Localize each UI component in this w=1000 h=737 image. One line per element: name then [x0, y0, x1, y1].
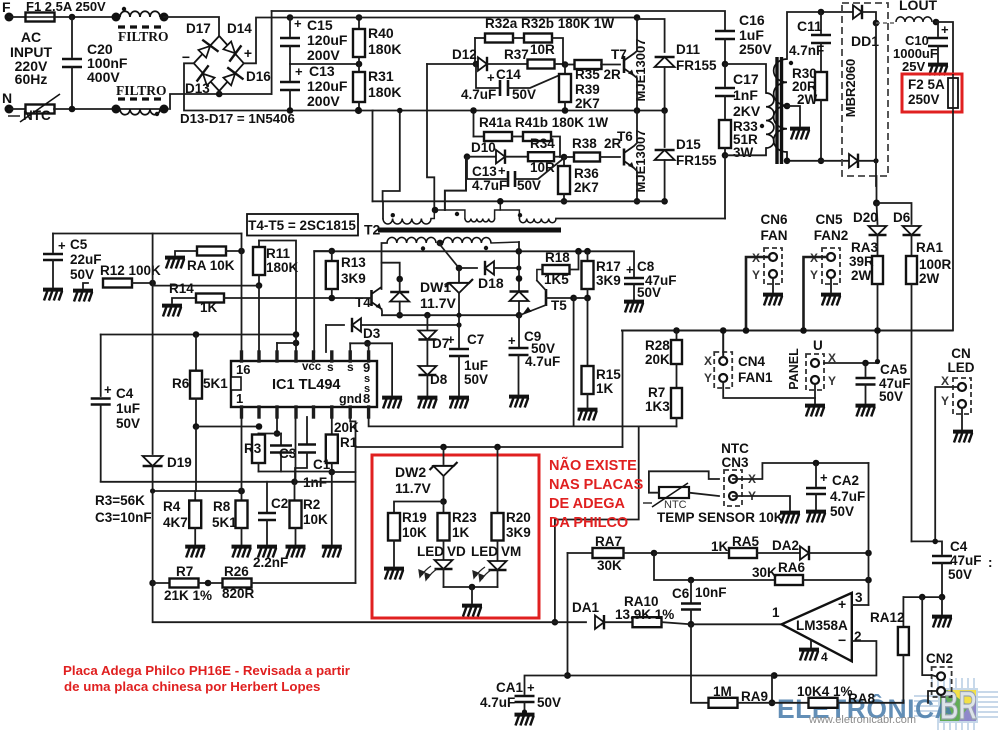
svg-text:RA1: RA1	[916, 240, 943, 255]
wire fan rail	[622, 330, 952, 332]
svg-text:13.9K 1%: 13.9K 1%	[615, 607, 674, 622]
diode D15 FR155	[664, 111, 666, 148]
resistor R33	[719, 120, 731, 148]
svg-text:50V: 50V	[948, 567, 972, 582]
svg-text:50V: 50V	[637, 285, 661, 300]
resistor R3	[276, 417, 278, 434]
svg-text:100R: 100R	[919, 257, 952, 272]
wire pin 20K R1 net	[350, 417, 355, 583]
svg-text:Y: Y	[828, 374, 836, 388]
wire CN2 Y	[928, 691, 936, 703]
svg-text:D17: D17	[186, 21, 211, 36]
transformer T2 core	[378, 228, 561, 233]
resistor R40	[358, 18, 360, 30]
svg-text:MBR2060: MBR2060	[843, 59, 858, 118]
svg-text:CN4: CN4	[738, 354, 765, 369]
capacitor C16	[715, 31, 735, 39]
svg-text:RA8: RA8	[848, 691, 875, 706]
zener DW1 11.7V	[456, 265, 463, 272]
capacitor C17	[724, 64, 726, 86]
resistor R14 1K	[162, 306, 182, 317]
svg-text:+: +	[626, 262, 634, 277]
svg-text:+: +	[508, 333, 516, 348]
svg-text:180K: 180K	[266, 260, 299, 275]
svg-text:2KV: 2KV	[733, 103, 761, 119]
svg-text:47uF: 47uF	[950, 553, 982, 568]
svg-text:50V: 50V	[517, 178, 541, 193]
wire secondary right to T5 column	[491, 242, 519, 243]
wire T5 column	[518, 242, 520, 315]
diode D19	[143, 456, 163, 466]
wire C4 top rail to R6	[101, 334, 296, 336]
svg-text:3: 3	[855, 590, 863, 605]
svg-text:+: +	[941, 22, 949, 37]
svg-text:1uF: 1uF	[464, 358, 488, 373]
ground CN LED Y	[961, 408, 963, 429]
wire dw2 r20 supply row	[356, 446, 623, 448]
svg-text:DD1: DD1	[851, 33, 879, 49]
LED VD	[435, 560, 453, 569]
svg-text:1M: 1M	[713, 684, 732, 699]
capacitor CA1 4.7uF	[525, 676, 568, 695]
wire C4 bottom row	[903, 596, 942, 598]
svg-text:1K: 1K	[200, 300, 218, 315]
wire R2 feed	[294, 482, 296, 501]
svg-text:D11: D11	[676, 42, 701, 57]
red box NAO EXISTE	[372, 455, 539, 618]
wire N to NTC	[9, 108, 26, 110]
op-amp pin3 wire	[852, 604, 869, 606]
svg-text:DA PHILCO: DA PHILCO	[549, 515, 628, 531]
svg-text:180K: 180K	[368, 41, 401, 57]
wire T7 collector	[634, 18, 637, 54]
resistor R26 820R	[208, 582, 223, 584]
ground C4	[941, 597, 943, 614]
svg-text:X: X	[704, 354, 712, 368]
zener DW2 11.7V	[443, 447, 445, 464]
resistor R38	[564, 156, 574, 158]
svg-text:50V: 50V	[70, 267, 94, 282]
wire T5 emitter diagonal	[520, 305, 546, 315]
resistor RA9 1M	[691, 624, 709, 703]
resistor RA3	[872, 256, 883, 284]
wire LED bottoms to ground	[444, 586, 498, 588]
wire RA junction vertical	[241, 234, 243, 353]
svg-text:C3: C3	[279, 446, 297, 461]
svg-text:4.7uF: 4.7uF	[480, 695, 515, 710]
svg-text:vcc: vcc	[302, 361, 322, 373]
svg-text:FAN: FAN	[761, 228, 788, 243]
resistor R23 1K	[443, 502, 445, 514]
svg-text:CN2: CN2	[926, 651, 953, 666]
resistor R1 20K	[331, 417, 333, 435]
svg-text:−: −	[838, 632, 846, 648]
svg-text:CA2: CA2	[832, 473, 859, 488]
svg-text:de uma placa chinesa por Herbe: de uma placa chinesa por Herbert Lopes	[64, 679, 320, 694]
svg-text:C14: C14	[496, 67, 521, 82]
node N input terminal	[5, 105, 14, 114]
svg-text:1K: 1K	[452, 525, 470, 540]
svg-text:D13: D13	[185, 81, 210, 96]
capacitor C9 4.7uF	[518, 315, 520, 347]
wire rail A to R41a feed	[473, 111, 475, 137]
red box around F2	[902, 74, 962, 112]
svg-text:50V: 50V	[537, 695, 561, 710]
svg-text:D20: D20	[853, 210, 878, 225]
svg-text:R38: R38	[572, 136, 597, 151]
capacitor C13 bulk	[289, 64, 291, 80]
svg-text:CA1: CA1	[496, 680, 523, 695]
svg-text:+: +	[295, 64, 303, 79]
svg-text:22uF: 22uF	[70, 252, 102, 267]
svg-text:MJE13007: MJE13007	[633, 130, 648, 193]
svg-text:LED: LED	[471, 544, 498, 559]
svg-text:10nF: 10nF	[695, 585, 727, 600]
rectifier DD1 MBR2060 dashed box	[842, 3, 888, 176]
svg-text:R7: R7	[176, 564, 193, 579]
svg-text:60Hz: 60Hz	[15, 71, 48, 87]
svg-text:4.7uF: 4.7uF	[461, 87, 496, 102]
wire DD1 internal	[875, 23, 877, 186]
svg-text:CA5: CA5	[880, 362, 907, 377]
wire T6 collector	[634, 111, 637, 147]
IC1 pins bottom	[240, 407, 243, 417]
svg-text:NÃO EXISTE: NÃO EXISTE	[549, 456, 637, 474]
svg-text:C6: C6	[672, 586, 690, 601]
svg-text:R39: R39	[575, 82, 600, 97]
svg-text:D13-D17 = 1N5406: D13-D17 = 1N5406	[180, 111, 295, 126]
svg-text:F1 2.5A 250V: F1 2.5A 250V	[26, 0, 106, 14]
resistor R34	[506, 156, 528, 158]
svg-text:11.7V: 11.7V	[395, 480, 431, 496]
svg-text:DW2: DW2	[395, 464, 426, 480]
wire R1 bottom to ground	[331, 472, 333, 544]
svg-text:D19: D19	[167, 455, 192, 470]
svg-text:20K: 20K	[334, 420, 359, 435]
svg-text:Y: Y	[704, 371, 712, 385]
filter inductor FILTRO 2	[118, 97, 162, 100]
wire F to fuse	[9, 16, 26, 18]
thermistor NTC	[26, 105, 55, 114]
svg-text:CN3: CN3	[721, 455, 748, 470]
svg-text:DA2: DA2	[772, 538, 799, 553]
capacitor C6 10nF	[688, 577, 695, 584]
svg-text:U: U	[813, 338, 823, 353]
svg-text:50V: 50V	[464, 372, 488, 387]
svg-text:RA9: RA9	[741, 689, 768, 704]
svg-text:2W: 2W	[851, 268, 872, 283]
svg-text:C1: C1	[313, 457, 331, 472]
svg-text:+: +	[820, 470, 828, 485]
svg-text:C3=10nF: C3=10nF	[95, 510, 152, 525]
svg-text:R11: R11	[266, 246, 291, 261]
svg-text:1nF: 1nF	[733, 87, 758, 103]
svg-text:R28: R28	[645, 338, 670, 353]
wire CN4 Y to panel ground	[723, 382, 815, 398]
svg-text:RA12: RA12	[870, 610, 905, 625]
svg-text:11.7V: 11.7V	[420, 295, 456, 311]
bridge rectifier D13 D14 D16 D17	[194, 36, 244, 91]
wire R6 bottom down	[195, 427, 197, 492]
wire R1 bottom row	[332, 471, 356, 473]
wire rail B	[373, 200, 666, 202]
svg-text:R40: R40	[368, 25, 394, 41]
wire primary feed riser to rail A	[383, 111, 400, 202]
svg-text:Placa Adega Philco PH16E - Rev: Placa Adega Philco PH16E - Revisada a pa…	[63, 663, 350, 678]
resistor RA7 30K	[568, 552, 593, 554]
svg-text:D15: D15	[676, 137, 701, 152]
wire CN3 Y to ground	[733, 496, 790, 510]
resistor RA5 1K	[729, 548, 757, 558]
svg-text:R41a R41b 180K 1W: R41a R41b 180K 1W	[479, 115, 608, 130]
svg-text:21K 1%: 21K 1%	[164, 588, 212, 603]
resistor R6 5K1	[195, 335, 197, 371]
svg-text:RA5: RA5	[732, 534, 759, 549]
resistor R19 10K	[394, 502, 444, 514]
svg-text:NTC: NTC	[721, 441, 749, 456]
wire RA7 left vertical	[567, 553, 569, 676]
LED VM	[489, 561, 507, 570]
svg-text:1K: 1K	[596, 381, 614, 396]
wire C15 bottom row	[290, 63, 359, 65]
diode D12	[427, 63, 476, 65]
node F input terminal	[5, 13, 14, 22]
svg-text:+: +	[487, 70, 495, 85]
svg-text:3W: 3W	[733, 145, 754, 160]
capacitor C11	[820, 12, 822, 33]
wire row 580 RA6	[654, 553, 775, 580]
svg-text:200V: 200V	[307, 47, 340, 63]
resistor R17 3K9	[587, 251, 589, 261]
svg-text:C16: C16	[739, 12, 765, 28]
wire filter1 to bridge top	[164, 17, 219, 36]
svg-text:C2: C2	[271, 496, 288, 511]
fuse F2	[948, 78, 958, 108]
svg-text:IC1 TL494: IC1 TL494	[272, 377, 341, 393]
capacitor C15	[287, 14, 294, 21]
wire y491 row	[153, 490, 242, 492]
svg-text:R8: R8	[213, 499, 231, 514]
svg-text:RA3: RA3	[851, 240, 878, 255]
svg-text:+: +	[498, 163, 506, 178]
svg-text:10K: 10K	[303, 512, 328, 527]
svg-text:D10: D10	[471, 140, 496, 155]
capacitor C20	[71, 17, 73, 57]
svg-text:D8: D8	[430, 372, 448, 387]
svg-text:FAN2: FAN2	[814, 228, 849, 243]
svg-text:CN6: CN6	[760, 212, 787, 227]
svg-text:TEMP SENSOR 10K: TEMP SENSOR 10K	[657, 510, 784, 525]
wire U X to CA5 row	[824, 362, 878, 364]
wire link rails	[271, 11, 273, 94]
svg-text:30K: 30K	[752, 565, 777, 580]
wire U Y to ground	[814, 384, 816, 403]
wire pin9 row D3 node	[364, 340, 371, 347]
resistor R41b	[512, 136, 523, 138]
svg-text:D14: D14	[227, 21, 252, 36]
svg-text:CN: CN	[951, 346, 971, 361]
svg-text:R36: R36	[574, 166, 599, 181]
svg-text:39R: 39R	[849, 254, 874, 269]
IC IC1 TL494	[231, 361, 377, 407]
wire thermistor loop	[649, 471, 719, 492]
svg-text:T6: T6	[617, 129, 633, 144]
svg-text:D3: D3	[363, 326, 381, 341]
wire row 553 to RA5	[654, 552, 729, 554]
svg-text:+: +	[58, 238, 66, 253]
svg-text:LOUT: LOUT	[899, 0, 938, 13]
svg-text:VM: VM	[501, 544, 521, 559]
wire DW1 bottom to C7	[458, 315, 460, 325]
svg-text:T5: T5	[551, 298, 567, 313]
svg-text:30K: 30K	[597, 558, 622, 573]
svg-text:1uF: 1uF	[116, 401, 140, 416]
svg-text:+: +	[527, 680, 535, 695]
capacitor CA5 47uF	[862, 360, 869, 367]
svg-text:+: +	[244, 45, 252, 61]
svg-text:Y: Y	[752, 268, 760, 282]
svg-text:AC: AC	[21, 29, 41, 45]
svg-text:FR155: FR155	[676, 58, 717, 73]
capacitor C13 4.7uF	[467, 157, 507, 179]
ground CN5 Y	[830, 278, 832, 292]
svg-text:NAS PLACAS: NAS PLACAS	[549, 477, 644, 493]
svg-text:Y: Y	[810, 268, 818, 282]
svg-text:8: 8	[363, 391, 370, 406]
resistor R13 3K9	[329, 248, 336, 255]
svg-text:F: F	[2, 0, 11, 15]
svg-text:4.7uF: 4.7uF	[472, 178, 507, 193]
wire CN5 X to fan rail	[804, 257, 828, 331]
svg-text:R6: R6	[172, 376, 190, 391]
svg-text:DE ADEGA: DE ADEGA	[549, 496, 626, 512]
svg-text:C4: C4	[116, 386, 134, 401]
wire pin3 link to column	[277, 342, 296, 344]
wire R18 leads	[537, 270, 543, 281]
wire secondary left to T4 collector node	[382, 243, 388, 289]
svg-text:R2: R2	[303, 497, 320, 512]
svg-text:D6: D6	[893, 210, 911, 225]
wire CN2 X feed	[922, 597, 936, 676]
diode T5 clamp	[510, 292, 529, 302]
svg-text:FILTRO: FILTRO	[116, 83, 167, 98]
capacitor C1 1nF	[306, 417, 308, 444]
svg-text:10K4 1%: 10K4 1%	[797, 684, 853, 699]
wire DA1 feed row	[555, 621, 586, 623]
wire y251 row to C8	[314, 251, 634, 277]
wire CN LED X	[935, 387, 957, 541]
svg-text:C15: C15	[307, 17, 333, 33]
transformer T2 secondary windings	[387, 237, 436, 243]
svg-text:4.7nF: 4.7nF	[789, 43, 824, 58]
svg-text:R20: R20	[506, 510, 531, 525]
svg-text:FR155: FR155	[676, 153, 717, 168]
resistor R28 20K	[676, 331, 678, 341]
svg-text:FILTRO: FILTRO	[118, 29, 169, 44]
capacitor CA2 4.7uF	[815, 463, 817, 486]
svg-text:RA7: RA7	[595, 534, 622, 549]
svg-text:R13: R13	[341, 255, 366, 270]
wire T5 node down to feedback row	[573, 298, 575, 426]
wire R6 bottom to pin2 row	[196, 426, 259, 428]
transformer T1 core	[775, 57, 778, 164]
wire C10 to fuse F2	[936, 22, 953, 74]
wire CN4 X up to rail	[722, 331, 724, 358]
resistor R15 1K	[587, 298, 589, 366]
wire bottom feedback rail	[568, 675, 775, 677]
resistor R11 180K	[258, 241, 260, 248]
resistor R7 1K3	[676, 364, 678, 388]
wire T6 emitter to rail B	[634, 168, 637, 201]
svg-text:1K3: 1K3	[645, 399, 670, 414]
resistor R30	[815, 72, 827, 100]
svg-text:FAN1: FAN1	[738, 370, 773, 385]
op-amp pin2 wire	[774, 641, 876, 676]
resistor R31	[358, 64, 360, 72]
resistor RA8 10K4	[772, 702, 809, 704]
wire rail drop x623	[622, 331, 624, 448]
wire DW1 top feed	[439, 243, 459, 268]
svg-text:C7: C7	[467, 332, 484, 347]
svg-text:2.2nF: 2.2nF	[253, 555, 288, 570]
filter inductor FILTRO 1	[112, 13, 121, 22]
op-amp LM358A	[782, 593, 852, 661]
wire NTC to C20 bottom junction and filter 2	[54, 108, 168, 110]
svg-text:2W: 2W	[797, 92, 818, 107]
wire D3 left down to IC pin	[325, 325, 327, 352]
svg-text:C8: C8	[637, 259, 655, 274]
wire pin2 node down to RA9 row	[772, 676, 774, 703]
diode D11 FR155	[637, 19, 665, 52]
resistor R39	[562, 61, 569, 68]
ground CN6 Y	[772, 278, 774, 292]
capacitor C5 22uF	[52, 234, 54, 253]
wire bridge plus up to top rail	[244, 18, 290, 64]
wire R12 row to R11 bottom	[153, 285, 259, 287]
svg-text:R32a R32b 180K 1W: R32a R32b 180K 1W	[485, 16, 614, 31]
svg-text:N: N	[2, 90, 12, 106]
svg-text:+: +	[838, 596, 846, 612]
capacitor C4 47uF bottom	[932, 556, 952, 563]
svg-text:C17: C17	[733, 71, 759, 87]
resistor RA10 13.9K	[633, 617, 662, 627]
resistor R32a	[475, 37, 485, 39]
transformer T1 secondary coil	[774, 59, 787, 152]
wire secondary bottom rail	[787, 152, 848, 161]
svg-text:MJE13007: MJE13007	[633, 39, 648, 102]
capacitor C2 2.2nF	[266, 482, 268, 512]
wire secondary top to rail	[787, 12, 852, 59]
wire pin row y426 to R7 1K3	[369, 417, 677, 426]
svg-text:D16: D16	[246, 69, 271, 84]
svg-text:R17: R17	[596, 259, 621, 274]
svg-text:D12: D12	[452, 47, 477, 62]
wire RA10 out to op-amp pin1	[691, 623, 782, 625]
svg-text:50V: 50V	[512, 87, 536, 102]
svg-text:R37: R37	[504, 47, 529, 62]
capacitor C3	[280, 434, 282, 446]
svg-text:DW1: DW1	[420, 279, 451, 295]
svg-text:RA6: RA6	[778, 560, 805, 575]
op-amp pin4 ground	[810, 641, 812, 648]
wire RA3 bottom to row	[875, 359, 880, 364]
wire C1 bottom rail	[101, 481, 356, 483]
svg-text:PANEL: PANEL	[787, 348, 801, 390]
svg-text:D18: D18	[478, 275, 504, 291]
diode D6	[903, 226, 921, 235]
wire R11 bottom to IC pin2 column	[258, 286, 260, 352]
svg-text:180K: 180K	[368, 84, 401, 100]
